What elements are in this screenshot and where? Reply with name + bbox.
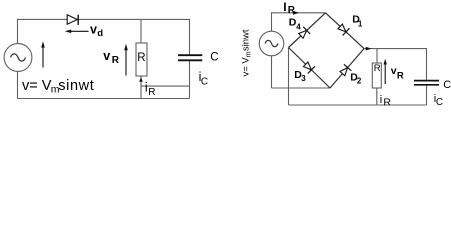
svg-text:d: d: [97, 28, 103, 39]
svg-text:sinwt: sinwt: [241, 29, 252, 51]
svg-text:1: 1: [358, 20, 363, 29]
svg-text:v= V: v= V: [22, 78, 52, 94]
svg-text:C: C: [436, 97, 443, 107]
svg-text:R: R: [288, 5, 296, 16]
svg-text:v= V: v= V: [241, 57, 252, 77]
svg-text:C: C: [443, 79, 451, 91]
svg-text:R: R: [148, 87, 155, 98]
svg-text:v: v: [391, 65, 397, 77]
svg-text:m: m: [245, 51, 252, 57]
svg-text:3: 3: [301, 74, 306, 83]
svg-text:R: R: [397, 70, 404, 81]
svg-text:i: i: [380, 94, 382, 106]
svg-text:C: C: [201, 77, 208, 88]
svg-text:R: R: [374, 63, 381, 74]
svg-text:I: I: [283, 0, 286, 14]
svg-text:R: R: [383, 97, 391, 108]
svg-text:v: v: [90, 23, 97, 37]
svg-text:2: 2: [357, 77, 362, 86]
svg-text:v: v: [103, 49, 110, 63]
svg-text:R: R: [137, 52, 145, 64]
svg-text:C: C: [210, 52, 218, 64]
svg-text:R: R: [112, 55, 120, 66]
svg-text:4: 4: [296, 23, 301, 32]
svg-text:sinwt: sinwt: [58, 78, 94, 94]
